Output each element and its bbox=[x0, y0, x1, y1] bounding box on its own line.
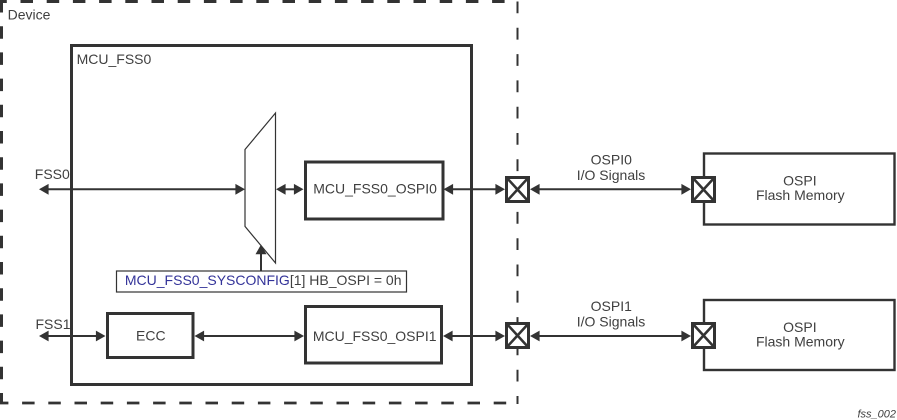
device dashed boundary right edge (I/O divider) bbox=[517, 2, 519, 405]
label FSS0 bbox=[35, 166, 70, 182]
device dashed boundary bottom edge bbox=[0, 402, 519, 405]
label MCU_FSS0_OSPI0 bbox=[313, 180, 437, 196]
label MCU_FSS0_OSPI1 bbox=[313, 328, 437, 344]
device dashed boundary top edge bbox=[0, 0, 506, 3]
block MCU_FSS0 bbox=[72, 46, 472, 385]
wire ECC to MCU_FSS0_OSPI1 (bidirectional) bbox=[195, 331, 305, 342]
svg-text:I/O Signals: I/O Signals bbox=[577, 167, 645, 183]
svg-text:OSPI1: OSPI1 bbox=[591, 298, 632, 314]
wire FSS1 to ECC (bidirectional) bbox=[39, 331, 106, 342]
svg-text:Device: Device bbox=[8, 7, 51, 23]
label Device bbox=[8, 7, 51, 23]
block OSPI Flash Memory (bottom) bbox=[704, 300, 895, 370]
wire pad to flash pad OSPI0 (bidirectional) bbox=[530, 184, 691, 195]
label ECC bbox=[136, 328, 166, 344]
wire MCU_FSS0_OSPI0 to pad (bidirectional) bbox=[444, 184, 506, 195]
label box MCU_FSS0_SYSCONFIG[1] HB_OSPI = 0h bbox=[117, 271, 407, 292]
label OSPI1 I/O Signals bbox=[577, 298, 645, 329]
svg-text:FSS1: FSS1 bbox=[36, 316, 71, 332]
label OSPI0 I/O Signals bbox=[577, 151, 645, 182]
block ECC bbox=[108, 314, 194, 358]
svg-text:MCU_FSS0_OSPI0: MCU_FSS0_OSPI0 bbox=[313, 180, 437, 196]
svg-text:OSPI0: OSPI0 bbox=[591, 151, 632, 167]
device dashed boundary left edge bbox=[0, 0, 3, 403]
svg-text:ECC: ECC bbox=[136, 328, 166, 344]
pad (boundary I/O cell) OSPI1 on divider bbox=[507, 324, 529, 348]
svg-text:fss_002: fss_002 bbox=[857, 409, 896, 420]
wire FSS0 to mux (bidirectional) bbox=[39, 184, 245, 195]
pad (boundary I/O cell) OSPI0 on divider bbox=[507, 178, 529, 202]
svg-text:I/O Signals: I/O Signals bbox=[577, 314, 645, 330]
label OSPI Flash Memory (bottom) bbox=[756, 319, 845, 350]
svg-text:MCU_FSS0_OSPI1: MCU_FSS0_OSPI1 bbox=[313, 328, 437, 344]
wire MCU_FSS0_OSPI1 to pad (bidirectional) bbox=[443, 331, 505, 342]
pad on flash memory (top) bbox=[693, 178, 715, 202]
label MCU_FSS0 bbox=[77, 51, 152, 67]
svg-text:FSS0: FSS0 bbox=[35, 166, 70, 182]
label FSS1 bbox=[36, 316, 71, 332]
pad on flash memory (bottom) bbox=[693, 324, 715, 348]
svg-text:MCU_FSS0: MCU_FSS0 bbox=[77, 51, 152, 67]
block MCU_FSS0_OSPI0 bbox=[306, 162, 444, 219]
wire select from SYSCONFIG to mux (arrow up) bbox=[256, 245, 267, 271]
label fss_002 bbox=[857, 409, 896, 420]
label OSPI Flash Memory (top) bbox=[756, 173, 845, 204]
svg-text:MCU_FSS0_SYSCONFIG[1] HB_OSPI: MCU_FSS0_SYSCONFIG[1] HB_OSPI = 0h bbox=[125, 272, 402, 288]
svg-text:Flash Memory: Flash Memory bbox=[756, 187, 845, 203]
block MCU_FSS0_OSPI1 bbox=[306, 307, 442, 364]
wire mux to MCU_FSS0_OSPI0 (bidirectional) bbox=[276, 184, 304, 195]
wire pad to flash pad OSPI1 (bidirectional) bbox=[530, 331, 691, 342]
svg-text:Flash Memory: Flash Memory bbox=[756, 334, 845, 350]
block OSPI Flash Memory (top) bbox=[704, 154, 895, 225]
mux bbox=[245, 113, 276, 263]
